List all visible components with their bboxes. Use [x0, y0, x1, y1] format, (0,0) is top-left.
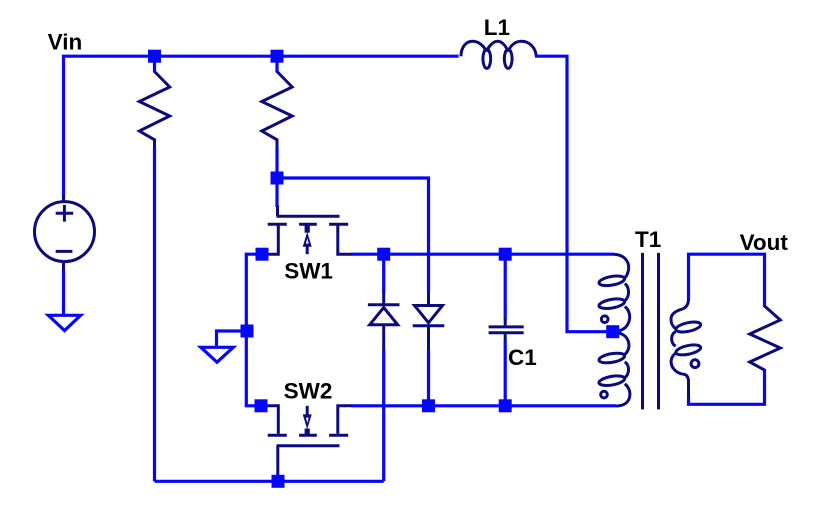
wire C1 top lead	[504, 258, 507, 319]
MOSFET SW1 drain lead right	[338, 226, 353, 255]
node junction C1 bottom	[499, 399, 512, 412]
voltage source V1 bottom stub	[62, 261, 65, 271]
inductor L1 loop leaf 2	[504, 49, 512, 68]
resistor R2	[262, 72, 292, 148]
wire SW1 source to left drop	[246, 254, 257, 406]
transformer T1 secondary winding	[671, 299, 688, 399]
wire L1 to transformer center tap	[535, 56, 607, 332]
wire top rail from Vin corner to L1	[64, 56, 459, 199]
MOSFET SW2 body arrow notch	[306, 418, 309, 423]
transformer T1 secondary phase dot	[691, 360, 699, 368]
node junction SW1 gate node	[271, 172, 284, 185]
svg-text:L1: L1	[484, 15, 510, 40]
diode D2 cathode bar	[413, 324, 445, 327]
node junction SW1 source	[256, 248, 269, 261]
voltage source V1 plus sign	[56, 205, 73, 222]
node junction mid ground node	[241, 325, 254, 338]
svg-text:C1: C1	[508, 345, 537, 370]
capacitor C1 bottom stub	[504, 334, 507, 342]
wire R2 bottom lead	[275, 147, 278, 173]
MOSFET SW2 channel bars	[268, 434, 349, 437]
transformer T1 secondary leaf 1	[675, 320, 701, 334]
MOSFET SW2 body stem	[306, 406, 309, 416]
wire Rload bottom / Vout loop bottom	[689, 369, 765, 404]
voltage source V1 circle	[35, 202, 95, 262]
resistor R1	[139, 72, 169, 148]
wire Vout loop	[689, 254, 765, 307]
resistor Rload	[750, 306, 781, 370]
MOSFET SW1 gate stub	[276, 206, 279, 217]
transformer T1 primary leaf 4	[598, 374, 625, 387]
capacitor C1 top stub	[504, 318, 507, 325]
diode D1 cathode bar	[368, 303, 400, 306]
voltage source V1 top stub	[62, 195, 65, 203]
capacitor C1 bottom plate	[489, 331, 524, 334]
transformer T1 core lines	[643, 253, 659, 410]
diode D1 bottom stub	[382, 326, 385, 351]
wire D1 top lead	[382, 258, 385, 292]
wire bottom rail	[155, 480, 384, 483]
MOSFET SW2 drain lead right	[338, 406, 353, 434]
wire SW2 gate to bottom rail	[276, 474, 279, 481]
wire bottom row SW2 to transformer	[351, 404, 616, 407]
svg-text:T1: T1	[635, 227, 661, 252]
node junction top rail at R1	[148, 50, 161, 63]
node junction D2 anode	[422, 399, 435, 412]
node junction D1 cathode	[377, 248, 390, 261]
MOSFET SW1 body nub	[305, 226, 310, 233]
diode D1 triangle	[370, 308, 398, 325]
wire source to ground	[62, 270, 65, 314]
capacitor C1 top plate	[489, 325, 524, 328]
MOSFET SW2 body nub	[305, 429, 310, 436]
voltage source V1 minus sign	[56, 250, 73, 253]
node junction top rail at R2	[271, 50, 284, 63]
MOSFET SW2 source lead left	[266, 406, 278, 434]
transformer T1 primary leaf 3	[598, 352, 625, 365]
wire R2 top lead	[275, 60, 278, 73]
svg-text:SW1: SW1	[284, 258, 333, 283]
node junction bottom rail SW2 gate	[272, 475, 285, 488]
node junction SW2 source	[255, 399, 268, 412]
wire D2 to lower node	[427, 350, 430, 406]
diode D1 top stub	[382, 291, 385, 304]
svg-text:Vin: Vin	[48, 30, 83, 55]
MOSFET SW1 body stem	[306, 246, 309, 255]
transformer T1 primary leaf 2	[598, 297, 625, 310]
ground G2	[201, 347, 234, 362]
wire SW1 drain row to transformer	[351, 253, 614, 256]
transformer T1 primary leaf 1	[598, 274, 625, 287]
diode D2 bottom stub	[427, 326, 430, 351]
diode D2 top stub	[427, 291, 430, 304]
wire D1 anode to bottom rail	[382, 350, 385, 481]
MOSFET SW1 body arrow notch	[306, 238, 309, 243]
transformer T1 primary phase dot top	[601, 316, 608, 323]
wire SW1 gate lead	[275, 183, 278, 207]
wire R1 bottom to lower rail	[153, 147, 156, 481]
MOSFET SW2 gate stub	[276, 446, 279, 476]
MOSFET SW2 body arrow	[303, 414, 312, 429]
svg-text:Vout: Vout	[740, 230, 789, 255]
node junction C1 top	[499, 248, 512, 261]
ground G1	[48, 315, 80, 330]
node junction T1 center tap	[606, 325, 619, 338]
wire to ground G2	[217, 331, 243, 347]
inductor L1 loop leaf 1	[483, 49, 491, 68]
MOSFET SW1 body arrow	[303, 232, 312, 247]
wire gate node to diode D2 branch	[282, 178, 429, 292]
MOSFET SW1 source lead left	[266, 226, 278, 255]
MOSFET SW1 gate plate	[277, 215, 340, 218]
transformer T1 primary top winding	[614, 254, 630, 331]
diode D2 triangle	[415, 306, 443, 323]
transformer T1 primary bottom winding	[616, 333, 630, 406]
MOSFET SW2 gate plate	[277, 444, 340, 447]
transformer T1 primary phase dot bottom	[601, 391, 608, 398]
wire R1 top lead	[153, 60, 156, 73]
transformer T1 secondary leaf 2	[675, 343, 701, 357]
svg-text:SW2: SW2	[284, 379, 333, 404]
wire C1 bottom lead	[504, 341, 507, 402]
MOSFET SW1 channel bars	[268, 223, 349, 226]
inductor L1 winding	[461, 41, 536, 56]
